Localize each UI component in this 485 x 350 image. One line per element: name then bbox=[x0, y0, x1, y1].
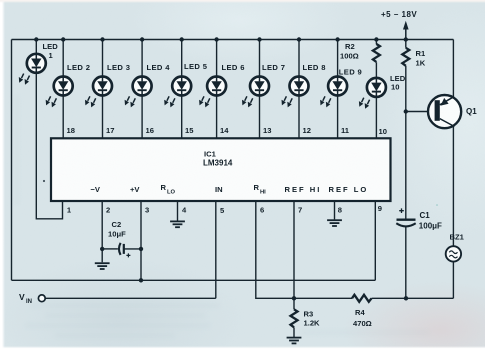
node supply bus junction bbox=[404, 37, 408, 41]
capacitor C2 10uF bbox=[108, 220, 130, 257]
resistor R3 1.2K bbox=[291, 309, 321, 327]
wire C1 bottom segment bbox=[405, 227, 407, 298]
pin label RLO bbox=[161, 183, 176, 196]
ground R3 bbox=[287, 338, 302, 344]
LED D1 bbox=[19, 42, 58, 85]
wire Q1 collector to buzzer bbox=[452, 126, 454, 246]
wire C2 left lead bbox=[102, 248, 118, 250]
wire top supply bus bbox=[12, 39, 454, 41]
wire pin 14 column bbox=[216, 40, 218, 139]
wire pin 16 column bbox=[141, 40, 143, 139]
node R3 ref junction bbox=[292, 296, 296, 300]
node LED2 bus junction bbox=[61, 37, 65, 41]
wire pin 10 / R2 / LED10 column bbox=[375, 40, 377, 139]
wire pin 17 column bbox=[102, 40, 104, 139]
node Q1 base junction bbox=[404, 109, 408, 113]
node C2 right junction bbox=[139, 247, 143, 251]
wire ref rail pin6 to R4 bbox=[256, 201, 352, 298]
ground pin 2 / C2 bbox=[95, 263, 110, 269]
resistor R1 1K bbox=[402, 48, 426, 68]
LED D4 bbox=[125, 63, 171, 107]
wire pin 15 column bbox=[181, 40, 183, 139]
node LED9 bus junction bbox=[335, 37, 339, 41]
wire R3 leads bbox=[293, 298, 295, 337]
IC IC1 LM3914 bbox=[51, 138, 391, 201]
node C2 left junction bbox=[100, 247, 104, 251]
node C1 rail junction bbox=[404, 296, 408, 300]
LED D9 bbox=[320, 68, 362, 108]
wire pin 12 column bbox=[298, 40, 300, 139]
node R2 bus junction bbox=[374, 37, 378, 41]
wire bottom mode line to pin 9 bbox=[12, 279, 376, 281]
node LED6 bus junction bbox=[214, 37, 218, 41]
wire buzzer to bottom rail bbox=[452, 262, 454, 299]
IC1 label bbox=[203, 150, 233, 168]
wire pin 8 stub bbox=[334, 201, 336, 219]
wire Q1 base wire bbox=[406, 111, 435, 113]
transistor Q1 bbox=[428, 95, 477, 128]
node pin3 mode line junction bbox=[139, 278, 143, 282]
wire C2 right lead bbox=[124, 248, 141, 250]
node LED1 bus junction bbox=[34, 37, 38, 41]
wire pin 11 column bbox=[337, 40, 339, 139]
wire pin 5 column bbox=[215, 201, 217, 298]
LED D7 bbox=[242, 63, 285, 107]
wire pin 2 column bbox=[101, 201, 103, 262]
LED D2 bbox=[46, 63, 91, 107]
wire supply stem and R1/C1 column bbox=[405, 40, 407, 220]
wire pin 13 column bbox=[259, 40, 261, 139]
LED D10 bbox=[359, 74, 406, 109]
wire left border vertical bbox=[11, 40, 13, 281]
junction dots on supply bus and nodes bbox=[34, 37, 408, 300]
buzzer BZ1 bbox=[446, 233, 465, 262]
wire pin 4 stub bbox=[177, 201, 179, 221]
wire pin 9 column bbox=[374, 201, 376, 280]
LED D5 bbox=[164, 62, 207, 107]
wire pin 18 column bbox=[62, 40, 64, 139]
supply arrow +5-18V bbox=[381, 10, 417, 39]
wire pin 7 column bbox=[293, 201, 295, 298]
node LED8 bus junction bbox=[297, 37, 301, 41]
wire pin 3 column bbox=[140, 201, 142, 280]
resistor R4 470ohm bbox=[352, 295, 372, 328]
node LED7 bus junction bbox=[257, 37, 261, 41]
wire Vin line bbox=[45, 297, 215, 299]
LED D3 bbox=[85, 63, 130, 107]
node LED5 bus junction bbox=[180, 37, 184, 41]
wire Q1 emitter to bus bbox=[452, 40, 454, 97]
terminal Vin bbox=[19, 292, 45, 305]
LED D8 bbox=[282, 63, 326, 107]
node LED3 bus junction bbox=[100, 37, 104, 41]
wire LED1 column and pin 1 route bbox=[36, 40, 62, 219]
scan edge whites bbox=[0, 0, 5, 350]
wire bottom right rail bbox=[372, 297, 454, 299]
capacitor C1 100uF bbox=[396, 208, 442, 230]
pin label RHI bbox=[254, 183, 267, 196]
resistor R2 100ohm bbox=[340, 42, 380, 62]
ground pin 8 bbox=[327, 220, 342, 226]
ground pin 4 bbox=[170, 221, 185, 227]
LED D6 bbox=[199, 63, 245, 107]
node LED4 bus junction bbox=[140, 37, 144, 41]
